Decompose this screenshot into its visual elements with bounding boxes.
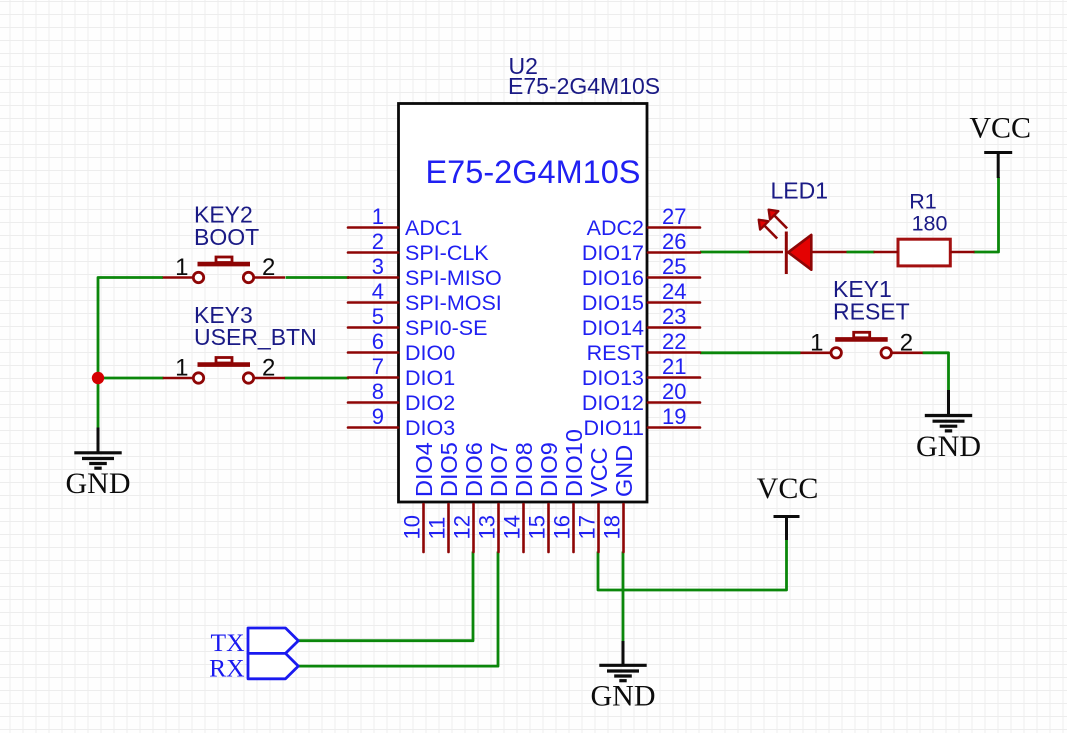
resistor R1 body bbox=[898, 239, 950, 266]
wire U2 pin12 to TX port bbox=[299, 552, 474, 641]
U2 pin 27 ADC2 (right) bbox=[587, 204, 700, 240]
svg-text:DIO10: DIO10 bbox=[561, 429, 587, 497]
U2 pin 18 GND (bottom) bbox=[600, 445, 638, 552]
svg-text:20: 20 bbox=[662, 379, 686, 404]
ground GND symbol (left) bbox=[66, 428, 131, 501]
U2 pin 16 DIO10 (bottom) bbox=[550, 429, 588, 552]
svg-text:SPI-MOSI: SPI-MOSI bbox=[405, 291, 502, 315]
svg-text:5: 5 bbox=[372, 304, 384, 329]
svg-text:GND: GND bbox=[66, 467, 131, 500]
svg-text:ADC1: ADC1 bbox=[405, 216, 462, 240]
R1 right lead bbox=[950, 251, 974, 254]
U2 pin 24 DIO15 (right) bbox=[582, 279, 700, 315]
svg-text:DIO16: DIO16 bbox=[582, 266, 644, 290]
svg-text:RX: RX bbox=[209, 654, 244, 683]
svg-text:19: 19 bbox=[662, 404, 686, 429]
switch KEY3 symbol bbox=[163, 355, 285, 384]
svg-text:16: 16 bbox=[550, 515, 575, 539]
svg-text:11: 11 bbox=[425, 517, 450, 540]
wire U2 pin26 to LED1 cathode bbox=[700, 251, 750, 254]
svg-text:1: 1 bbox=[372, 204, 384, 229]
wire R1 to VCC bbox=[974, 177, 999, 252]
svg-text:1: 1 bbox=[175, 355, 188, 382]
svg-text:2: 2 bbox=[900, 329, 913, 356]
svg-text:RESET: RESET bbox=[833, 298, 910, 324]
svg-text:GND: GND bbox=[916, 430, 981, 463]
op IC U2 body bbox=[399, 104, 648, 503]
svg-text:1: 1 bbox=[810, 329, 823, 356]
U2 pin 23 DIO14 (right) bbox=[582, 304, 700, 340]
U2 pin 1 ADC1 (left) bbox=[348, 204, 462, 240]
svg-text:12: 12 bbox=[450, 515, 475, 539]
svg-text:VCC: VCC bbox=[969, 112, 1031, 145]
U2 pin 5 SPI0-SE (left) bbox=[348, 304, 487, 340]
svg-text:SPI-CLK: SPI-CLK bbox=[405, 241, 489, 265]
svg-text:R1: R1 bbox=[909, 190, 936, 214]
U2 pin 13 DIO7 (bottom) bbox=[475, 442, 513, 552]
U2 pin 3 SPI-MISO (left) bbox=[348, 254, 502, 290]
power VCC symbol (top right) bbox=[969, 112, 1031, 179]
U2 pin 9 DIO3 (left) bbox=[348, 404, 455, 440]
U2 pin 6 DIO0 (left) bbox=[348, 329, 455, 365]
svg-text:10: 10 bbox=[400, 515, 425, 539]
U2 pin 11 DIO5 (bottom) bbox=[425, 442, 463, 552]
svg-text:24: 24 bbox=[662, 279, 686, 304]
svg-text:DIO6: DIO6 bbox=[461, 442, 487, 497]
svg-text:DIO11: DIO11 bbox=[583, 416, 644, 440]
svg-text:DIO9: DIO9 bbox=[536, 442, 562, 497]
U2 pin 14 DIO8 (bottom) bbox=[500, 442, 538, 552]
U2 pin 2 SPI-CLK (left) bbox=[348, 229, 489, 265]
svg-text:2: 2 bbox=[262, 254, 275, 281]
svg-text:3: 3 bbox=[372, 254, 384, 279]
svg-text:18: 18 bbox=[600, 515, 625, 539]
wire U2 pin18 to GND bbox=[622, 552, 625, 642]
ground GND symbol (right) bbox=[916, 390, 981, 463]
U2 pin 12 DIO6 (bottom) bbox=[450, 442, 488, 552]
svg-text:8: 8 bbox=[372, 379, 384, 404]
svg-text:DIO13: DIO13 bbox=[582, 366, 644, 390]
wire KEY2 pin1 to GND rail bbox=[98, 278, 163, 428]
svg-text:DIO7: DIO7 bbox=[486, 442, 512, 497]
svg-text:4: 4 bbox=[372, 279, 384, 304]
wire KEY2 pin2 to U2 pin3 bbox=[286, 276, 350, 279]
svg-text:ADC2: ADC2 bbox=[587, 216, 644, 240]
wire LED1 anode to R1 bbox=[847, 251, 875, 254]
svg-text:VCC: VCC bbox=[757, 472, 819, 505]
svg-text:15: 15 bbox=[525, 515, 550, 539]
LED LED1 symbol bbox=[749, 210, 847, 274]
svg-text:DIO12: DIO12 bbox=[582, 391, 644, 415]
wire U2 pin13 to RX port bbox=[299, 552, 499, 667]
svg-text:DIO15: DIO15 bbox=[582, 291, 644, 315]
svg-text:DIO3: DIO3 bbox=[405, 416, 455, 440]
port TX flag bbox=[248, 628, 298, 653]
U2 pin 7 DIO1 (left) bbox=[348, 354, 455, 390]
junction node (KEY2/KEY3 ground rail) bbox=[92, 372, 104, 384]
U2 pin 22 REST (right) bbox=[587, 329, 700, 365]
svg-text:22: 22 bbox=[662, 329, 686, 354]
svg-text:9: 9 bbox=[372, 404, 384, 429]
svg-text:25: 25 bbox=[662, 254, 686, 279]
svg-text:SPI0-SE: SPI0-SE bbox=[405, 316, 487, 340]
svg-text:REST: REST bbox=[587, 341, 644, 365]
svg-text:DIO8: DIO8 bbox=[511, 442, 537, 497]
ground GND symbol (bottom) bbox=[591, 641, 656, 713]
R1 left lead bbox=[874, 251, 899, 254]
svg-text:23: 23 bbox=[662, 304, 686, 329]
svg-text:E75-2G4M10S: E75-2G4M10S bbox=[426, 154, 641, 190]
svg-text:DIO1: DIO1 bbox=[405, 366, 455, 390]
svg-text:21: 21 bbox=[662, 354, 686, 379]
switch KEY1 symbol bbox=[800, 329, 922, 358]
svg-text:VCC: VCC bbox=[586, 447, 612, 497]
svg-text:GND: GND bbox=[611, 445, 637, 497]
svg-text:7: 7 bbox=[372, 354, 384, 379]
svg-text:2: 2 bbox=[262, 355, 275, 382]
svg-text:DIO4: DIO4 bbox=[411, 442, 437, 497]
U2 pin 4 SPI-MOSI (left) bbox=[348, 279, 502, 315]
U2 pin 19 DIO11 (right) bbox=[583, 404, 700, 440]
svg-text:26: 26 bbox=[662, 229, 686, 254]
switch KEY2 symbol bbox=[163, 254, 285, 283]
svg-text:6: 6 bbox=[372, 329, 384, 354]
svg-text:13: 13 bbox=[475, 515, 500, 539]
svg-text:17: 17 bbox=[575, 515, 600, 539]
svg-text:BOOT: BOOT bbox=[194, 224, 259, 250]
wire U2 pin22 to KEY1 pin1 bbox=[700, 351, 801, 354]
U2 pin 21 DIO13 (right) bbox=[582, 354, 700, 390]
wire KEY1 pin2 to GND bbox=[923, 353, 949, 391]
svg-text:SPI-MISO: SPI-MISO bbox=[405, 266, 502, 290]
U2 pin 15 DIO9 (bottom) bbox=[525, 442, 563, 552]
svg-text:GND: GND bbox=[591, 680, 656, 713]
svg-text:LED1: LED1 bbox=[771, 178, 829, 204]
svg-text:DIO0: DIO0 bbox=[405, 341, 455, 365]
svg-text:180: 180 bbox=[912, 212, 948, 236]
U2 pin 17 VCC (bottom) bbox=[575, 447, 613, 552]
U2 pin 10 DIO4 (bottom) bbox=[400, 442, 438, 552]
power VCC symbol (bottom, pin17) bbox=[757, 472, 819, 540]
U2 pin 25 DIO16 (right) bbox=[582, 254, 700, 290]
svg-text:2: 2 bbox=[372, 229, 384, 254]
wire KEY3 pin2 to U2 pin7 bbox=[285, 377, 350, 380]
svg-text:USER_BTN: USER_BTN bbox=[194, 324, 317, 350]
wire GND rail to KEY3 pin1 bbox=[98, 377, 164, 380]
svg-text:DIO5: DIO5 bbox=[436, 442, 462, 497]
svg-text:1: 1 bbox=[175, 254, 188, 281]
wire U2 pin17 to VCC bbox=[598, 539, 787, 590]
port RX flag bbox=[248, 653, 298, 678]
svg-text:27: 27 bbox=[662, 204, 686, 229]
svg-text:DIO17: DIO17 bbox=[582, 241, 644, 265]
U2 pin 26 DIO17 (right) bbox=[582, 229, 700, 265]
svg-text:E75-2G4M10S: E75-2G4M10S bbox=[508, 73, 660, 99]
U2 pin 20 DIO12 (right) bbox=[582, 379, 700, 415]
U2 pin 8 DIO2 (left) bbox=[348, 379, 455, 415]
svg-text:DIO2: DIO2 bbox=[405, 391, 455, 415]
svg-text:14: 14 bbox=[500, 515, 525, 539]
svg-text:DIO14: DIO14 bbox=[582, 316, 644, 340]
